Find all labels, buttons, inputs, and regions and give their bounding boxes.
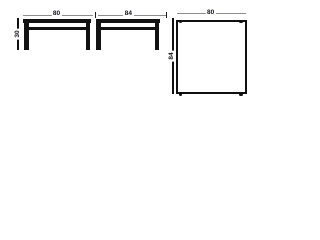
- table 1 top slab: [23, 19, 91, 23]
- dimension line width table 2: [98, 15, 166, 16]
- label 80 (top view width): [205, 10, 215, 17]
- table 1 apron rail: [28, 27, 86, 30]
- top-view depth dimension line (vertical): [172, 18, 174, 94]
- table 1 right leg: [86, 23, 91, 51]
- vertical height dimension line table 1: [17, 18, 19, 50]
- table 2 right leg: [155, 23, 160, 51]
- table 1 left leg: [24, 23, 29, 51]
- table 2 left leg: [96, 23, 101, 51]
- label 84 (top view depth, rotated): [169, 50, 176, 61]
- table 2 top slab: [96, 19, 160, 23]
- leg dot top-left: [179, 20, 182, 23]
- tick between dimension lines: [95, 12, 96, 18]
- dimension line width table 1 (left segment): [23, 15, 93, 16]
- leg dot bottom-left: [179, 93, 182, 96]
- leg dot top-right: [239, 20, 242, 23]
- leg dot bottom-right: [239, 93, 242, 96]
- top-view width dimension line: [177, 13, 246, 14]
- tick right end of dimension line 2: [166, 12, 167, 18]
- label 80 (table 1 width): [51, 11, 61, 18]
- label 30 (height, rotated): [15, 28, 22, 39]
- table 2 apron rail: [101, 27, 156, 30]
- label 84 (table 2 width): [123, 11, 133, 18]
- top view table outline: [176, 20, 248, 94]
